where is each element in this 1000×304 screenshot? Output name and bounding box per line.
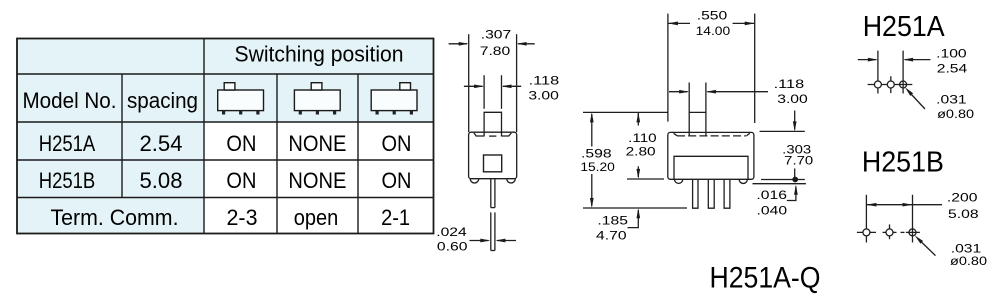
dim line .550 (668, 22, 690, 24)
arrowheads drawing 2 (590, 22, 798, 219)
arrow shafts .118 (669, 91, 688, 93)
dim .016 leader (787, 187, 796, 201)
svg-text:.200: .200 (947, 191, 978, 205)
svg-text:2.80: 2.80 (626, 145, 656, 159)
arrow shafts .307 (449, 43, 467, 45)
dim line .200 (866, 204, 942, 206)
svg-text:.040: .040 (757, 204, 788, 218)
table grid lines (17, 39, 434, 234)
svg-text:spacing: spacing (127, 88, 198, 113)
arrow shafts .024 (469, 240, 488, 242)
dim .110 shafts (637, 112, 639, 125)
svg-text:ø0.80: ø0.80 (950, 254, 987, 268)
body (469, 132, 517, 179)
svg-text:3.00: 3.00 (528, 89, 559, 103)
svg-text:H251B: H251B (862, 147, 944, 179)
arrowheads drawing 1 (459, 42, 527, 242)
svg-text:ø0.80: ø0.80 (937, 107, 974, 121)
svg-text:NONE: NONE (288, 168, 346, 193)
svg-text:open: open (294, 205, 339, 230)
ref line left of body bottom (627, 178, 664, 180)
svg-text:NONE: NONE (288, 131, 346, 156)
svg-text:H251A-Q: H251A-Q (710, 261, 821, 294)
svg-text:Switching position: Switching position (235, 41, 404, 66)
feet (675, 179, 683, 183)
svg-text:.031: .031 (936, 93, 967, 107)
svg-text:.307: .307 (481, 28, 512, 42)
feet (470, 179, 479, 183)
svg-text:.024: .024 (436, 225, 467, 239)
svg-text:.550: .550 (697, 9, 728, 23)
svg-text:.100: .100 (936, 46, 967, 60)
dim .185 leader (628, 210, 639, 228)
dim .598 shafts (591, 114, 593, 147)
flange (674, 156, 748, 179)
svg-text:Model No.: Model No. (23, 88, 117, 113)
svg-text:5.08: 5.08 (948, 207, 979, 221)
svg-text:ON: ON (382, 131, 412, 156)
crosshair verticals (877, 51, 879, 94)
ref line right of body top (760, 130, 805, 132)
actuator (484, 112, 501, 136)
pin (490, 179, 492, 208)
svg-text:.118: .118 (529, 74, 560, 88)
svg-text:.110: .110 (628, 131, 657, 145)
crosshair horizontals (857, 231, 876, 233)
switch icon 2 (knob center) (294, 83, 340, 111)
svg-text:H251A: H251A (863, 11, 946, 43)
body top inner edge (474, 133, 484, 136)
ref line top (.598) (583, 111, 668, 113)
ref line bottom (.598) (583, 207, 687, 209)
svg-text:15.20: 15.20 (580, 160, 615, 174)
svg-text:ON: ON (226, 168, 256, 193)
svg-text:H251A: H251A (39, 131, 96, 156)
table background (17, 39, 434, 234)
svg-text:.016: .016 (756, 188, 787, 202)
crosshair verticals (865, 195, 867, 243)
svg-text:7.70: 7.70 (784, 154, 813, 168)
svg-text:4.70: 4.70 (596, 229, 627, 243)
switch icon 3 (knob right) (371, 83, 417, 111)
svg-text:H251B: H251B (39, 168, 96, 193)
leader dia (921, 242, 936, 256)
svg-text:2-3: 2-3 (227, 205, 258, 230)
svg-text:2-1: 2-1 (381, 205, 410, 230)
svg-text:Term. Comm.: Term. Comm. (51, 205, 179, 230)
pins (693, 179, 698, 208)
svg-text:7.80: 7.80 (480, 44, 511, 58)
svg-text:0.60: 0.60 (437, 239, 468, 253)
actuator ext lines + sides (688, 83, 690, 137)
leader dia (911, 94, 925, 109)
svg-text:2.54: 2.54 (140, 131, 183, 156)
svg-text:ON: ON (226, 131, 256, 156)
pin circles (874, 81, 881, 88)
switch icon 1 (knob left) (218, 83, 264, 111)
arrow shafts .100 (858, 59, 876, 61)
body (668, 132, 754, 179)
svg-text:.598: .598 (581, 147, 612, 161)
ref lines right of body bottom (761, 179, 805, 181)
svg-text:.118: .118 (774, 77, 805, 91)
pin circles (863, 229, 870, 236)
svg-text:ON: ON (382, 168, 412, 193)
window (484, 155, 502, 172)
svg-text:.185: .185 (597, 214, 628, 228)
ext lines .118 (483, 75, 485, 109)
svg-text:14.00: 14.00 (696, 24, 731, 38)
hidden top edge dashed (677, 135, 746, 137)
ext lines .550 (667, 14, 669, 122)
svg-text:3.00: 3.00 (777, 92, 808, 106)
dot terminator .303 (792, 177, 798, 183)
ext lines .307 (468, 34, 470, 132)
table outer border (17, 39, 434, 234)
arrow shafts .118 (464, 85, 483, 87)
dim .303 shafts (794, 111, 796, 130)
crosshair horizontal (868, 84, 913, 86)
svg-text:5.08: 5.08 (140, 168, 183, 193)
svg-text:2.54: 2.54 (937, 62, 968, 76)
